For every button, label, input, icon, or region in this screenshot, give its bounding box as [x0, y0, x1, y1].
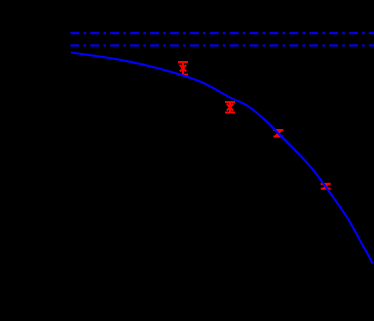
lower dash-dot bound line [70, 44, 374, 46]
blue fit curve [71, 53, 373, 264]
error bar point 1 [178, 62, 188, 75]
error bar point 4 [321, 183, 331, 189]
error bar point 3 [273, 130, 283, 137]
upper dash-dot bound line [70, 32, 374, 34]
error bar point 2 [225, 102, 235, 112]
